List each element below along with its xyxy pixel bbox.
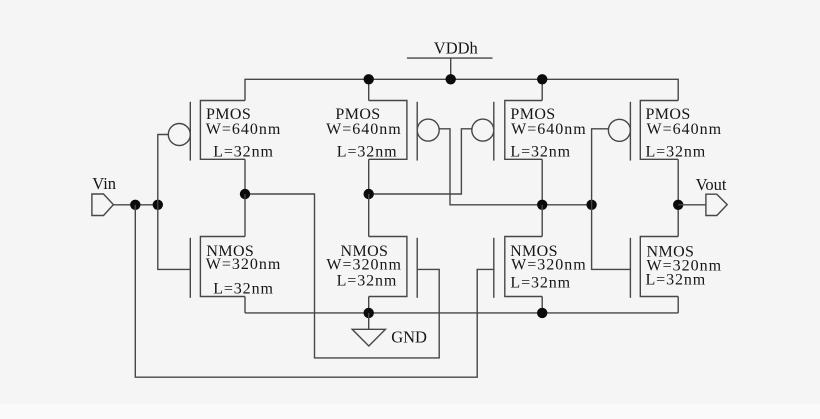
- junction dot NMOS2 source / GND tap: [364, 308, 374, 318]
- wire NMOS1 drain up to node A: [244, 194, 246, 237]
- svg-text:Vin: Vin: [92, 174, 116, 193]
- transistor NMOS2 gate bar: [416, 238, 418, 298]
- power symbol VDDh bar: [407, 57, 493, 59]
- svg-text:W=640nm: W=640nm: [647, 121, 723, 138]
- transistor NMOS4 gate bar: [629, 238, 631, 298]
- svg-text:L=32nm: L=32nm: [213, 143, 274, 160]
- svg-text:W=320nm: W=320nm: [326, 256, 402, 273]
- svg-text:L=32nm: L=32nm: [213, 281, 274, 298]
- port Vin input pin: [92, 194, 114, 216]
- wire NMOS2 drain up to node B: [368, 194, 370, 237]
- wire PMOS2 source drop: [368, 79, 370, 100]
- wire node C to NMOS4 gate: [592, 205, 631, 270]
- ground symbol GND: [352, 313, 385, 346]
- wire PMOS3 drain down to node C: [541, 159, 543, 205]
- wire NMOS1 source to ground rail: [244, 297, 246, 313]
- transistor PMOS4 gate bar: [629, 102, 631, 161]
- junction dot stage1 drain node A: [240, 189, 250, 199]
- transistor PMOS1 gate bubble: [168, 124, 190, 146]
- wire node A: stage1 drains to NMOS2 gate: [245, 194, 439, 358]
- wire Vout node to output pin: [678, 204, 706, 206]
- transistor NMOS3 channel and leads: [505, 237, 542, 297]
- junction dot NMOS3 source on ground rail: [537, 308, 547, 318]
- wire PMOS4 drain down to node Vout: [677, 159, 679, 205]
- svg-text:W=640nm: W=640nm: [511, 121, 587, 138]
- transistor PMOS3 channel and leads: [505, 101, 542, 160]
- transistor PMOS3 gate bubble: [472, 119, 494, 141]
- svg-text:L=32nm: L=32nm: [510, 274, 571, 291]
- wire PMOS2 drain down to node B: [368, 159, 370, 194]
- svg-text:L=32nm: L=32nm: [337, 143, 398, 160]
- junction dot stage4 drain node Vout: [673, 200, 683, 210]
- junction dot node C to stage4 gates: [586, 200, 596, 210]
- svg-text:L=32nm: L=32nm: [646, 271, 707, 288]
- transistor PMOS4 channel and leads: [640, 101, 678, 160]
- wire Vin pin to junction: [113, 204, 157, 206]
- wire NMOS4 source to ground rail: [677, 297, 679, 313]
- svg-text:L=32nm: L=32nm: [646, 143, 707, 160]
- svg-text:GND: GND: [391, 328, 427, 347]
- wire NMOS4 drain up to node Vout: [677, 205, 679, 237]
- wire VDD top rail: [245, 79, 678, 100]
- transistor PMOS2 gate bubble: [417, 119, 439, 141]
- wire Vin to PMOS1 gate: [158, 135, 169, 205]
- svg-text:L=32nm: L=32nm: [510, 143, 571, 160]
- wire PMOS1 drain down to node A: [244, 159, 246, 194]
- transistor NMOS1 gate bar: [189, 238, 191, 298]
- svg-text:Vout: Vout: [696, 175, 727, 194]
- transistor NMOS3 gate bar: [493, 238, 495, 298]
- wire Vin to NMOS1 gate: [158, 205, 191, 270]
- wire VDDh bar to top rail: [450, 58, 452, 79]
- transistor PMOS2 gate bar: [416, 102, 418, 161]
- svg-text:L=32nm: L=32nm: [337, 273, 398, 290]
- svg-text:W=640nm: W=640nm: [326, 121, 402, 138]
- wire NMOS3 drain up to node C: [541, 205, 543, 237]
- port Vout output pin: [706, 194, 727, 215]
- junction dot stage2 drain node B: [364, 189, 374, 199]
- wire node B: stage2 drains to PMOS3 gate: [369, 129, 472, 194]
- wire Vin to NMOS3 gate (bottom feedthrough): [135, 205, 494, 377]
- transistor NMOS1 channel and leads: [200, 237, 245, 297]
- junction dot stage3 drain node C: [537, 200, 547, 210]
- wire ground source rail: [245, 312, 678, 314]
- wire node C to PMOS4 gate: [592, 129, 609, 205]
- wire NMOS3 source to ground rail: [541, 297, 543, 313]
- wire PMOS2 gate to node C rail: [439, 129, 591, 205]
- transistor PMOS1 channel and leads: [200, 101, 245, 160]
- junction dot Vin node feedback tap: [130, 200, 140, 210]
- junction dot PMOS2 source on VDD rail: [364, 74, 374, 84]
- wire PMOS3 source drop: [541, 79, 543, 100]
- transistor PMOS4 gate bubble: [608, 119, 630, 141]
- transistor PMOS2 channel and leads (mirrored): [369, 101, 407, 160]
- wire NMOS2 source to ground rail: [368, 297, 370, 313]
- svg-text:VDDh: VDDh: [434, 39, 479, 58]
- transistor PMOS3 gate bar: [493, 102, 495, 161]
- transistor PMOS1 gate bar: [189, 102, 191, 161]
- transistor NMOS2 channel and leads (mirrored): [369, 237, 407, 297]
- junction dot VDDh feed on VDD rail: [446, 74, 456, 84]
- junction dot Vin node gate tap: [153, 200, 163, 210]
- svg-text:W=320nm: W=320nm: [511, 256, 587, 273]
- svg-text:W=640nm: W=640nm: [206, 121, 282, 138]
- transistor NMOS4 channel and leads: [640, 237, 678, 297]
- junction dot PMOS3 source on VDD rail: [537, 74, 547, 84]
- svg-text:W=320nm: W=320nm: [206, 256, 282, 273]
